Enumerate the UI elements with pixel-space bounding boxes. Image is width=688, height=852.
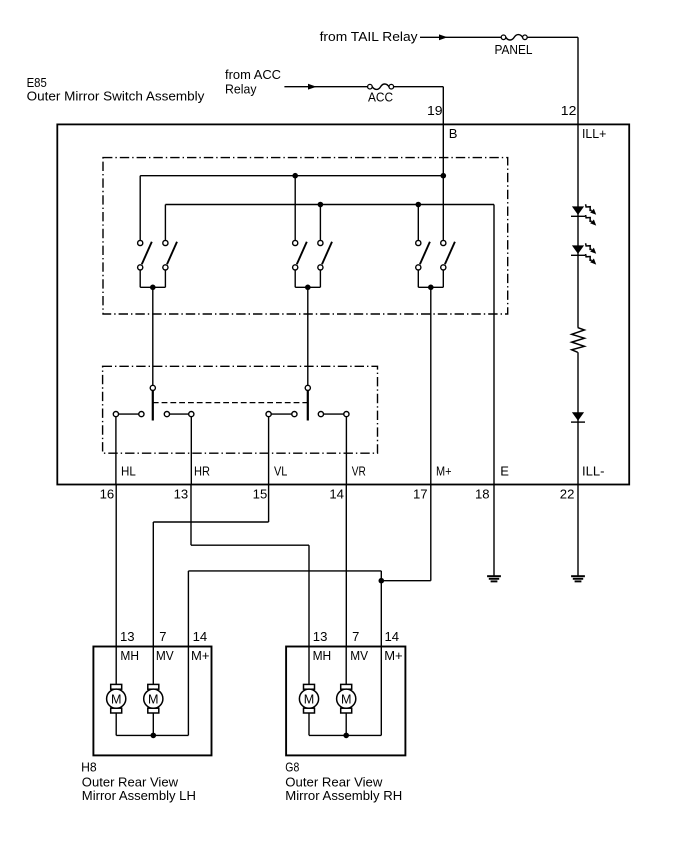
svg-text:Mirror Assembly RH: Mirror Assembly RH (285, 788, 402, 803)
svg-text:Mirror Assembly LH: Mirror Assembly LH (82, 788, 196, 803)
svg-text:7: 7 (159, 629, 166, 644)
svg-text:H8: H8 (81, 760, 97, 775)
svg-text:G8: G8 (285, 760, 299, 775)
svg-text:M: M (111, 692, 122, 706)
svg-text:14: 14 (193, 629, 208, 644)
svg-text:18: 18 (475, 487, 490, 502)
svg-text:M: M (148, 692, 159, 706)
svg-text:16: 16 (100, 487, 115, 502)
svg-text:Relay: Relay (225, 82, 257, 97)
svg-text:15: 15 (253, 487, 268, 502)
svg-text:HL: HL (121, 464, 136, 479)
svg-text:13: 13 (174, 487, 189, 502)
svg-text:7: 7 (352, 629, 359, 644)
svg-text:B: B (449, 126, 458, 141)
svg-text:PANEL: PANEL (495, 42, 533, 57)
svg-text:M: M (341, 692, 352, 706)
svg-text:ILL-: ILL- (582, 464, 605, 479)
svg-text:M+: M+ (436, 464, 452, 479)
svg-text:from ACC: from ACC (225, 67, 281, 82)
svg-text:M+: M+ (384, 648, 402, 663)
svg-text:ACC: ACC (368, 89, 393, 104)
svg-text:ILL+: ILL+ (582, 126, 606, 141)
svg-text:12: 12 (561, 103, 577, 118)
svg-text:Outer Mirror Switch Assembly: Outer Mirror Switch Assembly (27, 89, 205, 104)
svg-text:22: 22 (560, 487, 575, 502)
svg-text:M+: M+ (191, 648, 209, 663)
svg-text:MV: MV (350, 648, 368, 663)
svg-text:from TAIL Relay: from TAIL Relay (320, 29, 419, 44)
svg-text:17: 17 (413, 487, 428, 502)
svg-text:13: 13 (120, 629, 135, 644)
svg-text:13: 13 (313, 629, 328, 644)
svg-text:MH: MH (120, 648, 139, 663)
svg-text:14: 14 (329, 487, 344, 502)
svg-text:19: 19 (427, 103, 443, 118)
svg-text:VR: VR (352, 464, 366, 479)
svg-text:VL: VL (274, 464, 287, 479)
svg-text:14: 14 (385, 629, 400, 644)
svg-text:MH: MH (313, 648, 332, 663)
svg-text:E: E (500, 464, 509, 479)
svg-text:MV: MV (156, 648, 174, 663)
svg-text:M: M (304, 692, 315, 706)
svg-text:HR: HR (194, 464, 210, 479)
